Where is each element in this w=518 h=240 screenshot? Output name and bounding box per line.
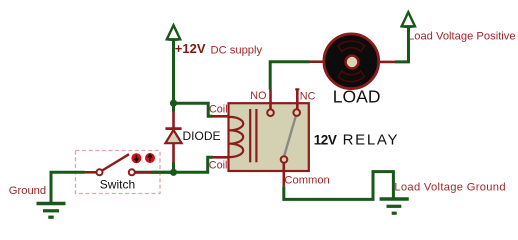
diode D1 bbox=[165, 111, 181, 163]
relay U1 body bbox=[229, 103, 309, 171]
wire bottom coil feed bbox=[135, 157, 213, 172]
svg-text:Coil: Coil bbox=[209, 159, 228, 171]
svg-text:DC supply: DC supply bbox=[211, 44, 263, 56]
svg-text:LOAD: LOAD bbox=[333, 86, 381, 106]
relay pin Common stub bbox=[282, 163, 285, 187]
svg-text:Switch: Switch bbox=[100, 177, 135, 191]
node junction top bbox=[170, 100, 177, 107]
svg-text:Load Voltage Positive: Load Voltage Positive bbox=[408, 31, 516, 43]
ground (left) bbox=[37, 204, 66, 218]
relay pin NO stub bbox=[269, 90, 272, 111]
relay coil pin bottom (red) bbox=[213, 156, 230, 159]
relay contact Common bbox=[281, 156, 288, 163]
wire junction-to-diode bbox=[172, 103, 175, 112]
node junction bottom bbox=[170, 169, 177, 176]
relay coil arcs bbox=[229, 117, 243, 157]
switch SW1 bbox=[85, 154, 152, 175]
svg-text:Ground: Ground bbox=[9, 185, 46, 197]
svg-text:Coil: Coil bbox=[209, 104, 228, 116]
switch actuator buttons bbox=[131, 153, 155, 163]
motor LOAD bbox=[310, 34, 395, 89]
wire +12V vertical bbox=[172, 39, 175, 103]
wire common-to-ground bbox=[284, 172, 394, 200]
switch enclosure dashed box bbox=[76, 151, 161, 194]
svg-text:12VRELAY: 12VRELAY bbox=[314, 131, 399, 148]
relay contact NC bbox=[293, 109, 300, 116]
wire ground-to-switch bbox=[51, 172, 85, 203]
relay core lines bbox=[250, 109, 256, 162]
power symbol Load Voltage Positive bbox=[401, 12, 416, 27]
wire load-to-positive bbox=[395, 27, 409, 62]
relay pin NC stub bbox=[295, 88, 299, 110]
svg-text:Common: Common bbox=[284, 175, 329, 187]
relay coil pin top (red) bbox=[212, 115, 229, 118]
svg-text:NO: NO bbox=[250, 90, 266, 102]
wire switch-to-junction bbox=[151, 171, 174, 174]
wire NO-to-load bbox=[270, 62, 310, 90]
relay armature bbox=[284, 116, 296, 157]
wire diode-to-junction bbox=[172, 162, 175, 172]
relay contact NO bbox=[267, 109, 274, 116]
ground (right) bbox=[380, 199, 409, 213]
svg-text:+12V: +12V bbox=[175, 41, 206, 56]
power symbol +12V bbox=[166, 25, 181, 40]
wire top coil feed bbox=[174, 103, 213, 116]
svg-text:NC: NC bbox=[300, 90, 316, 102]
svg-text:DIODE: DIODE bbox=[183, 129, 221, 143]
svg-text:Load Voltage Ground: Load Voltage Ground bbox=[394, 182, 505, 194]
